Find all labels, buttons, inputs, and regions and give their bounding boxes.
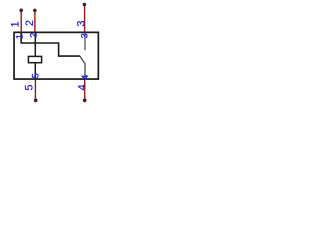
svg-text:3: 3 xyxy=(76,20,88,26)
svg-text:1: 1 xyxy=(14,34,24,39)
svg-text:3: 3 xyxy=(80,33,90,38)
svg-text:2: 2 xyxy=(29,33,39,38)
svg-text:1: 1 xyxy=(9,21,21,27)
svg-text:4: 4 xyxy=(80,75,90,80)
svg-text:5: 5 xyxy=(31,73,41,78)
svg-text:5: 5 xyxy=(24,84,36,90)
svg-text:4: 4 xyxy=(77,84,89,90)
svg-text:2: 2 xyxy=(24,20,36,26)
